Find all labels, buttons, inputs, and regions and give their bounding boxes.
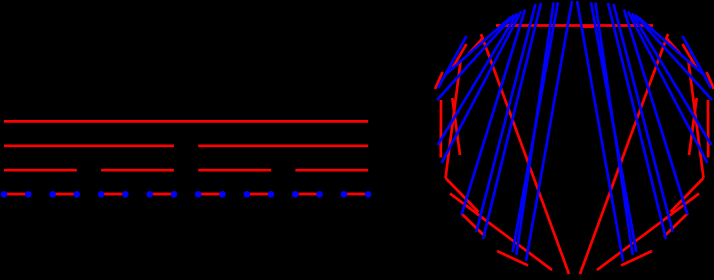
edge chord upper xyxy=(438,36,467,88)
pair dash lower left mirror xyxy=(664,213,688,237)
quarter chord left xyxy=(446,62,461,178)
fan chord b2 mirror xyxy=(635,15,712,100)
fan chord b4 mirror xyxy=(628,12,707,164)
fan chord b10 xyxy=(526,1,572,261)
short diagonal below mirror xyxy=(671,178,704,212)
point dot4 xyxy=(98,191,105,198)
fan chord b5 mirror xyxy=(624,10,688,215)
top chord full interval xyxy=(496,24,653,27)
point dot2 xyxy=(49,191,56,198)
pair 3 xyxy=(101,193,125,196)
pair 8 xyxy=(344,193,368,196)
point dot5 xyxy=(122,191,129,198)
point dot1 xyxy=(25,191,32,198)
point dot9 xyxy=(219,191,226,198)
quarter dash upper left xyxy=(469,38,484,54)
fan chord b1 xyxy=(445,17,511,75)
fan chord b9 xyxy=(513,2,558,252)
quarter chord left mirror xyxy=(689,62,704,178)
right half xyxy=(198,144,368,147)
point dot11 xyxy=(268,191,275,198)
left half xyxy=(4,144,174,147)
point dot12 xyxy=(292,191,299,198)
fan chord b7 xyxy=(483,3,541,239)
point dot3 xyxy=(74,191,81,198)
point dot8 xyxy=(195,191,202,198)
point dot6 xyxy=(146,191,153,198)
quarter chord lower left xyxy=(450,194,552,271)
pair dash lower left xyxy=(461,213,485,237)
fan chord b10 mirror xyxy=(577,1,623,261)
half chord left xyxy=(481,34,569,274)
full interval xyxy=(4,120,368,123)
crossing chord left xyxy=(452,98,460,155)
pair 1 xyxy=(4,193,28,196)
pair 4 xyxy=(150,193,174,196)
fan chord b2 xyxy=(437,15,514,100)
fan chord b4 xyxy=(442,12,521,164)
fan chord b5 xyxy=(462,10,526,215)
point dot15 xyxy=(365,191,372,198)
point dot7 xyxy=(171,191,178,198)
pair dash bottom left xyxy=(497,251,528,266)
quarter dash upper left mirror xyxy=(666,38,681,54)
pair 6 xyxy=(247,193,271,196)
fan chord b3 mirror xyxy=(632,14,711,146)
half chord left mirror xyxy=(580,34,668,274)
pair 5 xyxy=(198,193,222,196)
pair dash upper left A mirror xyxy=(683,44,697,68)
edge chord upper mirror xyxy=(683,36,712,88)
point dot10 xyxy=(244,191,251,198)
quarter 4 xyxy=(295,169,368,172)
fan chord b7 mirror xyxy=(608,3,666,239)
fan chord b8 xyxy=(516,3,553,256)
fan chord b6 xyxy=(476,4,535,232)
pair dash upper left A xyxy=(453,44,467,68)
pair 7 xyxy=(295,193,319,196)
fan chord b1 mirror xyxy=(638,17,704,75)
top chord overlay dash xyxy=(581,25,594,28)
point dot14 xyxy=(341,191,348,198)
fan chord b9 mirror xyxy=(591,2,636,252)
pair dash upper left B mirror xyxy=(707,72,714,89)
quarter 1 xyxy=(4,169,77,172)
point dot0 xyxy=(1,191,8,198)
pair 2 xyxy=(53,193,77,196)
pair dash upper left B xyxy=(435,72,443,89)
quarter 2 xyxy=(101,169,174,172)
quarter chord lower left mirror xyxy=(597,194,699,271)
pair dash left vertical mirror xyxy=(707,100,710,158)
crossing chord left mirror xyxy=(689,98,697,155)
fan chord b6 mirror xyxy=(614,4,673,232)
quarter 3 xyxy=(198,169,271,172)
fan chord b8 mirror xyxy=(595,3,632,256)
short diagonal below xyxy=(446,178,479,212)
pair dash left vertical xyxy=(439,100,442,158)
fan chord b3 xyxy=(438,14,517,146)
pair dash bottom left mirror xyxy=(621,251,652,266)
point dot13 xyxy=(316,191,323,198)
